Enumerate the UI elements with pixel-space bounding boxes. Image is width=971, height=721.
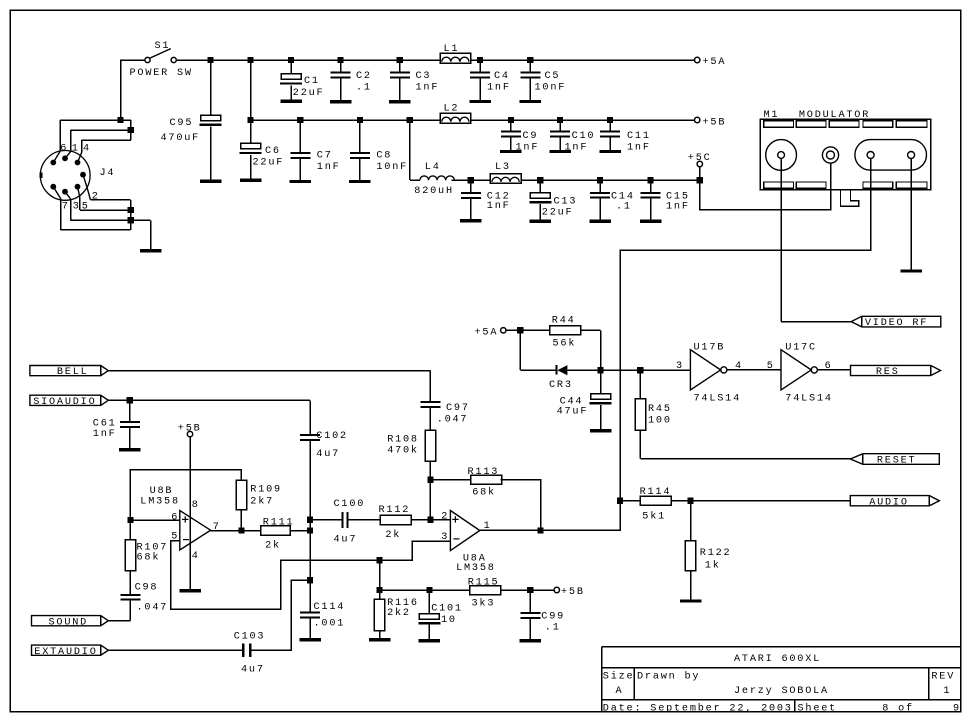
resistor R109 [236,480,246,510]
wire [80,209,131,211]
op-amp U8B [180,511,211,551]
wire [519,330,521,370]
wire [429,408,431,430]
wire [71,129,131,131]
net flag VIDEO RF [851,316,941,329]
title block row line [602,667,961,669]
junction [557,117,563,123]
label C97 [446,403,470,414]
svg-text:R109: R109 [250,485,282,496]
capacitor C10 [550,130,570,137]
wire [60,119,131,121]
wire [910,159,912,270]
svg-text:R112: R112 [379,505,411,516]
wire [479,60,481,71]
svg-text:J4: J4 [100,168,116,179]
junction [508,117,514,123]
junction [598,367,604,373]
svg-text:LM358: LM358 [456,563,496,574]
wire [251,119,441,121]
svg-text:5k1: 5k1 [642,510,666,522]
svg-text:S1: S1 [155,41,171,52]
label C7 [317,150,333,161]
capacitor C6 [240,143,262,154]
wire [529,60,531,71]
junction [288,57,294,63]
net flag SOUND [32,616,109,629]
wire [290,85,292,99]
label C100 [334,499,366,510]
U8A minus sign [453,538,459,540]
svg-text:100: 100 [648,416,672,427]
svg-text:L2: L2 [444,104,460,115]
svg-text:AUDIO: AUDIO [869,497,909,508]
net flag AUDIO [850,496,939,509]
capacitor C7 [290,152,310,159]
label C9 [523,131,539,142]
wire [817,369,850,371]
wire [501,480,541,531]
wire [189,437,191,589]
junction [338,57,344,63]
svg-text:+5C: +5C [688,153,712,164]
ground [369,638,391,641]
capacitor C61 [120,421,140,428]
J4 pin 5 dot [75,184,81,190]
junction [527,587,533,593]
value 1nF [627,143,651,154]
capacitor C3 [390,72,410,79]
label L2 [444,104,460,115]
value 9 [953,703,961,714]
resistor R112 [380,515,411,525]
wire [539,180,541,192]
wire [82,139,131,141]
label C13 [554,197,578,208]
wire [471,119,695,121]
junction [128,207,134,213]
label R107 [137,542,169,553]
wire [428,590,430,614]
svg-text:1nF: 1nF [627,143,651,154]
inverter U17C [781,350,817,390]
wire [690,571,692,600]
svg-text:22uF: 22uF [542,208,574,219]
svg-text:+5A: +5A [475,327,499,338]
label L3 [495,162,511,173]
wire [309,441,311,611]
label Sheet [798,702,838,714]
wire [240,510,242,531]
svg-text:C101: C101 [431,604,463,615]
svg-text:1k: 1k [705,559,721,571]
label +5A [703,57,727,68]
junction [537,177,543,183]
svg-text:C99: C99 [541,612,565,623]
label U17C [785,343,817,354]
wire [250,155,252,179]
wire [129,400,131,421]
wire [299,159,301,180]
wire [559,137,561,150]
label C102 [316,431,348,442]
title block frame [602,647,961,712]
pin 1 [484,521,492,532]
wire [83,175,90,200]
wire [411,519,450,521]
wire [108,399,310,401]
wire [671,500,850,502]
wire [299,120,301,152]
value 10nF [376,162,408,173]
svg-text:2k: 2k [265,540,281,552]
label R109 [250,485,282,496]
wire [129,428,131,448]
ground [500,150,522,153]
svg-text:RES: RES [876,367,900,378]
label C95 [170,118,194,129]
svg-text:M1: M1 [764,110,780,121]
value LM358 [140,497,180,508]
svg-text:A: A [616,686,624,697]
wire [428,625,430,639]
svg-text:C114: C114 [314,602,346,613]
svg-text:C5: C5 [545,71,561,82]
value 68k [472,487,496,499]
label C6 [265,146,281,157]
svg-text:C2: C2 [356,71,372,82]
value 22uF [253,158,285,169]
label L1 [444,44,460,55]
wire [108,620,130,622]
M1 trimmer [822,147,838,163]
pin label 7 [62,202,70,213]
label J4 [100,168,116,179]
value .001 [314,618,346,629]
pin 4 [735,361,743,372]
value 100 [648,416,672,427]
svg-text:C61: C61 [93,419,117,430]
wire [309,610,311,612]
wire [340,60,342,72]
wire [639,430,641,458]
label C2 [356,71,372,82]
wire [340,79,342,100]
wire [559,120,561,130]
value 2k7 [250,496,274,508]
capacitor C97 [420,401,440,408]
wire [599,199,601,220]
svg-text:C95: C95 [170,118,194,129]
wire [71,219,131,221]
svg-text:BELL: BELL [57,367,89,378]
label C61 [93,419,117,430]
ground [200,179,222,182]
wire [78,187,80,198]
pin 3 [676,361,684,372]
M1 pin pair housing [855,140,927,171]
label +5B [178,424,202,435]
label Size [603,670,635,682]
diode CR3 [555,365,567,375]
svg-text:C8: C8 [376,150,392,161]
wire [79,198,81,211]
M1 shield tab [841,190,859,206]
svg-text:1nF: 1nF [416,83,440,94]
svg-text:+5B: +5B [703,117,727,128]
label +5A [475,327,499,338]
capacitor C9 [501,130,521,137]
ground [520,639,542,642]
wire [131,219,151,221]
value 1nF [487,201,511,212]
svg-text:C6: C6 [265,146,281,157]
wire [379,560,381,599]
ground [680,599,702,602]
pin label 3 [73,202,81,213]
wire [650,180,652,192]
capacitor C101 [418,614,440,625]
svg-text:R122: R122 [700,548,732,559]
wire [609,137,611,150]
svg-text:8 of: 8 of [882,702,914,714]
J4 key notch [39,173,42,178]
wire [430,479,470,481]
wire [399,79,401,100]
junction [297,117,303,123]
capacitor C11 [600,130,620,137]
svg-text:6: 6 [171,512,179,523]
svg-text:LM358: LM358 [140,497,180,508]
wire [529,590,531,612]
svg-text:1: 1 [943,686,951,697]
pin 4 [192,551,200,562]
value 4u7 [316,449,340,460]
title block divider [928,668,930,700]
junction [468,177,474,183]
net flag BELL [30,366,108,379]
inductor L4 [420,176,454,180]
inverter U17B [690,350,727,390]
ground [330,100,352,103]
wire [379,631,381,638]
label C101 [431,604,463,615]
wire [81,140,83,152]
junction [248,117,254,123]
svg-text:470uF: 470uF [161,133,201,144]
value A [616,686,624,697]
wire [310,519,342,521]
svg-text:REV: REV [931,671,955,682]
title ATARI 600XL [734,654,821,665]
svg-text:.1: .1 [545,622,561,633]
wire [130,200,132,230]
capacitor C102 [300,434,320,441]
wire [506,329,550,331]
junction [208,57,214,63]
wire [130,470,241,520]
junction [397,57,403,63]
wire [599,180,601,192]
svg-text:C100: C100 [334,499,366,510]
junction [307,517,313,523]
svg-text:2: 2 [92,191,100,202]
wire [121,59,145,61]
label MODULATOR [799,110,870,121]
ground [520,100,542,103]
wire [70,199,72,220]
capacitor C114 [300,611,320,618]
resistor R122 [685,541,695,571]
svg-text:1nF: 1nF [317,162,341,173]
svg-text:C97: C97 [446,403,470,414]
svg-text:4: 4 [192,551,200,562]
wire [130,519,179,521]
svg-text:.1: .1 [616,201,632,212]
pin label 4 [83,144,91,155]
svg-text:10nF: 10nF [535,83,567,94]
svg-text:5: 5 [767,361,775,372]
wire [252,580,310,650]
wire [349,519,380,521]
label C15 [666,192,690,203]
U8B plus sign [182,516,188,522]
M1 bottom tab [796,182,826,188]
svg-text:RESET: RESET [877,456,917,467]
M1 pin B [908,152,915,159]
label Date [603,702,793,714]
power +5B [695,117,700,122]
wire [567,369,690,371]
svg-text:470k: 470k [387,444,419,456]
svg-text:R44: R44 [552,316,576,327]
svg-text:Drawn by: Drawn by [637,670,700,682]
resistor R115 [470,586,501,595]
net flag EXTAUDIO [32,645,109,658]
label CR3 [549,380,573,391]
wire [211,530,261,532]
junction [427,477,433,483]
label C44 [560,397,584,408]
resistor R44 [550,326,581,335]
label M1 [764,110,780,121]
svg-text:C4: C4 [494,71,510,82]
wire [529,619,531,639]
ground [290,180,312,183]
svg-text:4u7: 4u7 [334,534,358,545]
wire [129,571,131,594]
svg-text:6: 6 [60,144,68,155]
wire [650,199,652,220]
svg-text:47uF: 47uF [557,407,589,418]
label C12 [487,191,511,202]
label REV [931,671,955,682]
wire [90,199,130,201]
label L4 [425,162,441,173]
wire [210,127,212,180]
wire [290,60,292,74]
capacitor C1 [280,74,302,85]
resistor R114 [640,496,671,505]
wire [470,180,472,192]
label C11 [627,131,651,142]
ground [389,100,411,103]
wire [150,220,152,249]
svg-text:1: 1 [484,521,492,532]
label C14 [611,192,635,203]
M1 bottom tab [863,182,893,188]
value 1nF [416,83,440,94]
value 74LS14 [785,394,832,405]
title block divider [794,700,796,712]
value 1 [943,686,951,697]
wire [210,60,212,115]
wire [539,204,541,219]
title block row line [602,699,961,701]
wire [781,321,851,323]
M1 bottom tab [896,182,927,188]
resistor R116 [374,599,384,631]
svg-text:U17C: U17C [785,343,817,354]
ground [119,448,141,451]
svg-text:Sheet: Sheet [798,702,838,714]
wire [609,120,611,130]
svg-text:.1: .1 [356,83,372,94]
wire [53,187,60,199]
svg-text:2k: 2k [385,529,401,541]
value 1nF [666,201,690,212]
pin label 5 [82,202,90,213]
value .047 [137,602,169,613]
svg-text:C103: C103 [234,632,266,643]
wire [129,601,131,621]
wire [699,167,701,181]
pin 7 [213,522,221,533]
svg-text:SOUND: SOUND [49,617,89,628]
pin 2 [441,512,449,523]
value 8 of [882,702,914,714]
pin 6 [171,512,179,523]
svg-text:22uF: 22uF [293,88,325,99]
svg-text:R108: R108 [387,435,419,446]
junction [597,177,603,183]
label S1 [155,41,171,52]
svg-text:C13: C13 [554,197,578,208]
wire [510,120,512,130]
power +5B [187,431,192,436]
value 3k3 [472,597,496,609]
svg-text:C11: C11 [627,131,651,142]
net flag SIOAUDIO [30,395,108,408]
label +5B [703,117,727,128]
M1 top tab [863,121,893,128]
svg-text:7: 7 [62,202,70,213]
svg-text:3k3: 3k3 [472,597,496,609]
value 47uF [557,407,589,418]
inductor L2 [440,113,471,123]
M1 bottom tab [764,182,794,188]
svg-text:10nF: 10nF [376,162,408,173]
capacitor C14 [590,192,610,199]
wire [108,370,430,372]
svg-text:R111: R111 [263,518,295,529]
svg-text:+5B: +5B [178,424,202,435]
pin 3 [441,532,449,543]
wire [120,59,122,120]
junction [376,587,382,593]
switch S1 [145,49,176,63]
junction [127,517,133,523]
